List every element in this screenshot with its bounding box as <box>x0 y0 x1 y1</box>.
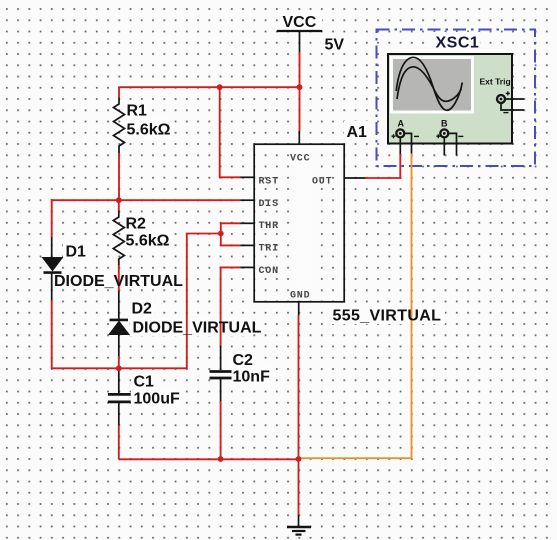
svg-text:TRI: TRI <box>259 244 279 255</box>
chip pin stub TRI <box>240 244 254 246</box>
scope terminal Ext Trig <box>497 95 505 103</box>
junction dots <box>116 84 303 462</box>
wire DIS horizontal <box>52 199 241 201</box>
wire RST drop <box>220 87 241 177</box>
svg-text:GND: GND <box>290 291 310 302</box>
scope stub Ext Trig plus <box>505 98 524 100</box>
capacitor C1 <box>118 369 120 393</box>
svg-text:5.6kΩ: 5.6kΩ <box>126 233 170 250</box>
wire GND vertical top <box>298 315 300 459</box>
scope terminal plus minus marks <box>392 91 510 138</box>
wire VCC vertical <box>299 52 301 131</box>
wire D1 bottom drop <box>51 300 53 369</box>
VCC power symbol <box>277 30 322 32</box>
scope stub A minus <box>405 133 412 154</box>
wire bottom horizontal <box>119 458 299 460</box>
chip pin stub RST <box>240 176 254 178</box>
scope stub A plus down <box>399 138 401 155</box>
chip pin labels <box>259 154 333 302</box>
svg-text:10nF: 10nF <box>233 369 271 386</box>
scope trace inner sine <box>397 67 461 102</box>
wires red <box>52 52 401 515</box>
node THR-TRI <box>218 231 224 237</box>
svg-text:DIODE_VIRTUAL: DIODE_VIRTUAL <box>54 273 183 290</box>
chip pin stub THR <box>240 222 254 224</box>
node rail-VCC <box>297 84 303 90</box>
ground <box>298 514 300 527</box>
svg-text:5V: 5V <box>325 37 345 54</box>
wire D2 to junction <box>118 356 120 369</box>
scope stub Ext Trig minus <box>501 103 524 110</box>
svg-text:Ext Trig: Ext Trig <box>480 77 511 87</box>
svg-text:R1: R1 <box>127 103 148 120</box>
wire R2 top <box>118 199 120 211</box>
wire OUT to scope <box>365 154 400 178</box>
svg-text:DIODE_VIRTUAL: DIODE_VIRTUAL <box>133 320 262 337</box>
diode D1 <box>51 236 53 257</box>
scope stub B minus <box>449 133 457 155</box>
scope small labels <box>398 77 511 129</box>
oscilloscope screen <box>390 56 474 114</box>
scope trace outer sine <box>396 57 462 110</box>
wire top rail <box>119 86 300 88</box>
svg-text:VCC: VCC <box>290 154 310 165</box>
node C2-bottom <box>218 456 224 462</box>
scope terminal A <box>396 129 404 137</box>
chip pin stub DIS <box>240 199 254 201</box>
wire CON link <box>221 267 241 346</box>
svg-text:XSC1: XSC1 <box>436 35 480 52</box>
svg-text:VCC: VCC <box>283 14 317 31</box>
node D2-C1 <box>116 365 122 371</box>
svg-text:D1: D1 <box>66 244 87 261</box>
wire orange scope A minus to ground <box>299 154 412 459</box>
svg-text:THR: THR <box>259 221 279 232</box>
wire R1 top drop <box>118 87 120 99</box>
wire THR link <box>221 223 241 233</box>
wire D1 top drop <box>51 199 53 237</box>
svg-text:CON: CON <box>259 266 279 277</box>
svg-text:D2: D2 <box>132 301 153 318</box>
svg-text:100uF: 100uF <box>134 391 180 408</box>
wire C1 bottom <box>118 425 120 459</box>
svg-text:R2: R2 <box>126 216 147 233</box>
capacitor C2 <box>220 345 222 370</box>
resistor R2 <box>113 210 124 266</box>
svg-text:DIS: DIS <box>259 199 279 210</box>
wire bottom-left horizontal <box>52 367 187 369</box>
svg-text:C2: C2 <box>233 352 254 369</box>
resistor R1 <box>114 97 125 154</box>
wire GND vertical bottom <box>298 459 300 515</box>
svg-text:A: A <box>398 119 405 129</box>
scope terminal B <box>440 129 448 137</box>
chip pin stub OUT <box>344 177 366 179</box>
oscilloscope XSC1 selection box <box>377 30 536 167</box>
scope stub B plus down <box>443 138 445 156</box>
chip pin stub VCC top <box>298 131 300 145</box>
svg-text:C1: C1 <box>134 374 155 391</box>
op-amp U1 chip body 555 <box>254 144 344 302</box>
svg-text:RST: RST <box>259 177 279 188</box>
wire R1 bottom to DIS junction <box>118 153 120 200</box>
wire R2 to D2 <box>118 265 120 291</box>
white label boxes <box>52 11 480 406</box>
wire TRI link <box>221 234 241 246</box>
svg-text:A1: A1 <box>347 124 368 141</box>
svg-text:5.6kΩ: 5.6kΩ <box>127 122 171 139</box>
diode D2 <box>118 290 120 321</box>
wire THR-TRI to left column <box>187 234 221 370</box>
svg-text:555_VIRTUAL: 555_VIRTUAL <box>333 308 442 325</box>
labels big <box>54 14 479 408</box>
svg-text:OUT: OUT <box>312 177 332 188</box>
chip pin stub GND bottom <box>298 302 300 316</box>
node rail-RST <box>217 84 223 90</box>
chip pin stub CON <box>240 266 254 268</box>
oscilloscope XSC1 body <box>388 54 512 144</box>
wire C2 bottom <box>220 401 222 459</box>
svg-text:B: B <box>441 119 448 129</box>
node R1-R2-DIS <box>116 197 122 203</box>
node GND-bottom <box>296 456 302 462</box>
